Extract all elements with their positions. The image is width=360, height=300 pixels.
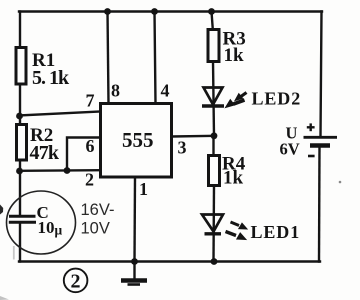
svg-text:7: 7: [86, 91, 95, 111]
ground: [121, 281, 147, 285]
wire ground stub: [133, 262, 135, 280]
wire bottom rail: [19, 260, 320, 262]
wire pin 2 link: [19, 169, 100, 172]
resistor R4: [209, 154, 246, 189]
wire left rail upper: [19, 12, 21, 50]
svg-text:16V-: 16V-: [81, 201, 115, 219]
wire capacitor to bottom rail: [19, 223, 21, 262]
node top R3: [208, 8, 215, 15]
wire pin 8 drop: [108, 12, 109, 104]
svg-text:2: 2: [85, 170, 94, 190]
node top pin4: [151, 8, 158, 15]
svg-text:3: 3: [178, 138, 187, 158]
wire top rail: [19, 10, 322, 12]
op-amp U1 555 timer IC: [101, 104, 172, 178]
LED2 diode triangle: [202, 88, 224, 107]
LED1 light arrow lower: [226, 232, 247, 240]
wire top node to R3: [212, 12, 213, 30]
wire pin3 node to R4: [212, 136, 214, 156]
battery U plus plate: [304, 136, 338, 139]
svg-text:6V: 6V: [280, 140, 300, 159]
resistor R2: [17, 125, 60, 165]
wire R2 bottom stub: [19, 160, 21, 172]
wire pin 1 drop: [133, 177, 136, 262]
node R1/R2/pin7: [16, 113, 23, 120]
node pin6/pin2 junction: [64, 167, 71, 174]
wire pin 6 link: [67, 138, 100, 171]
wire right rail lower: [318, 146, 321, 262]
wire node to R2 top: [19, 115, 21, 125]
svg-text:47k: 47k: [30, 142, 60, 164]
node pin3: [211, 132, 218, 139]
battery plus sign: [307, 123, 315, 131]
node LED1 bottom: [211, 258, 218, 265]
wire R1 bottom to node: [19, 84, 21, 118]
scan artifact faint vertical streak: [13, 246, 15, 260]
capacitor highlight circle: [7, 191, 76, 254]
LED2 light arrow lower: [226, 100, 245, 108]
resistor R3: [208, 29, 246, 67]
wire R2 node to capacitor: [19, 171, 21, 216]
scan artifact speck right: [339, 181, 342, 184]
svg-text:1: 1: [139, 179, 148, 199]
svg-text:1k: 1k: [223, 168, 244, 189]
battery minus sign: [308, 155, 315, 158]
scan artifact left edge blob: [0, 205, 3, 215]
svg-text:8: 8: [111, 81, 120, 101]
battery U minus plate: [310, 143, 330, 148]
svg-text:LED2: LED2: [252, 89, 302, 109]
LED2 light arrow upper: [235, 93, 247, 101]
scan artifact bottom-left smudge: [0, 296, 9, 300]
wire pin 7 link: [19, 112, 100, 116]
resistor R1: [16, 48, 70, 90]
svg-text:1k: 1k: [224, 45, 245, 66]
capacitor C1 plates: [9, 216, 36, 222]
svg-text:5. 1k: 5. 1k: [32, 67, 70, 89]
LED1 light arrow upper: [231, 222, 248, 229]
LED1 diode triangle: [202, 215, 223, 234]
wire R4 to LED1 to bottom rail: [212, 186, 215, 262]
wire pin 3 link: [172, 135, 214, 138]
node R2/C/pin2: [16, 168, 23, 175]
figure number circled 2: [64, 269, 88, 293]
wire pin 4 drop: [155, 12, 156, 104]
svg-text:4: 4: [161, 81, 170, 101]
wire right rail upper: [321, 12, 322, 137]
node top pin8: [104, 8, 111, 15]
svg-text:6: 6: [86, 136, 95, 156]
wire R3 to LED2 to pin3 node: [213, 62, 214, 137]
svg-text:2: 2: [71, 271, 81, 293]
svg-text:10V: 10V: [81, 220, 110, 238]
node ground: [131, 258, 138, 265]
svg-text:LED1: LED1: [251, 222, 301, 242]
svg-text:555: 555: [122, 128, 154, 152]
